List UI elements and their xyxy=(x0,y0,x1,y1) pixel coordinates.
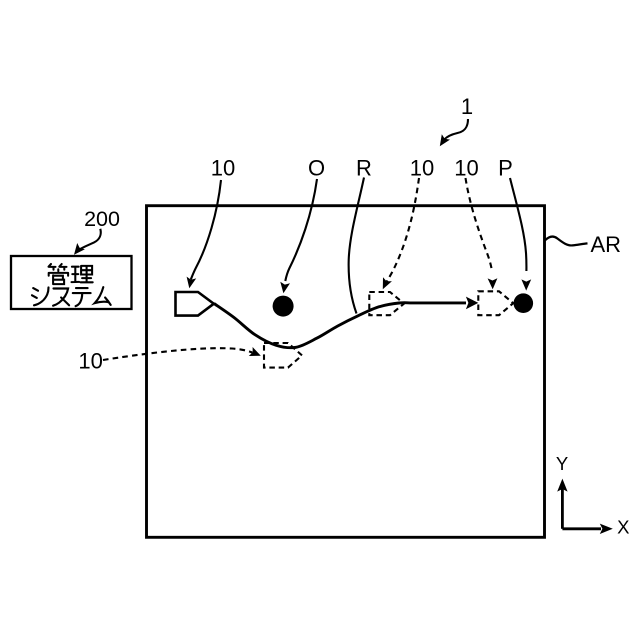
leader arrow from first 10 to robot pentagon xyxy=(191,180,221,280)
destination point P (filled circle) xyxy=(514,293,534,313)
svg-text:O: O xyxy=(308,156,325,181)
coordinate axis X arrow xyxy=(562,527,601,530)
katakana SU of システム xyxy=(53,289,69,306)
first dashed pose pentagon (mid) xyxy=(369,292,404,315)
route curve R xyxy=(214,303,466,348)
svg-text:10: 10 xyxy=(454,156,478,181)
katakana MU of システム xyxy=(95,287,111,305)
svg-text:10: 10 xyxy=(78,349,102,374)
svg-text:AR: AR xyxy=(591,232,622,257)
travel direction arrowhead on route toward P xyxy=(466,297,478,310)
svg-text:1: 1 xyxy=(461,94,473,119)
svg-text:X: X xyxy=(617,517,629,538)
kanji RI (reason) of 管理 xyxy=(72,266,93,282)
leader arrow from P to destination point xyxy=(510,178,526,271)
svg-text:Y: Y xyxy=(556,453,568,474)
svg-text:R: R xyxy=(356,156,372,181)
area boundary rectangle AR xyxy=(147,206,545,538)
wavy leader from AR to area boundary xyxy=(545,237,588,246)
second dashed pose pentagon (right) xyxy=(478,291,513,315)
dashed leader arrow from left 10 to lower dashed pentagon xyxy=(103,348,253,360)
katakana SHI of システム xyxy=(32,288,49,306)
leader arrow from 1 xyxy=(444,119,468,140)
coordinate axis Y arrow xyxy=(561,489,564,529)
dashed leader arrow from third 10 to second dashed pentagon xyxy=(466,178,493,272)
leader arrow from 200 to management system box xyxy=(79,229,101,250)
svg-text:10: 10 xyxy=(211,156,235,181)
kanji KAN (pipe) of 管理 xyxy=(49,264,69,284)
svg-text:10: 10 xyxy=(410,156,434,181)
robot 10 pentagon (solid) xyxy=(176,292,214,316)
katakana TE of システム xyxy=(73,288,91,306)
svg-text:P: P xyxy=(498,156,513,181)
origin point O (filled circle) xyxy=(273,296,294,317)
leader arrow from O to origin point xyxy=(285,179,317,281)
leader line from R to route curve xyxy=(349,178,364,314)
management system box 200 xyxy=(11,256,132,309)
dashed leader arrow from second 10 to first dashed pentagon xyxy=(387,178,419,282)
svg-text:200: 200 xyxy=(84,207,120,231)
lower dashed pose pentagon xyxy=(264,343,302,368)
